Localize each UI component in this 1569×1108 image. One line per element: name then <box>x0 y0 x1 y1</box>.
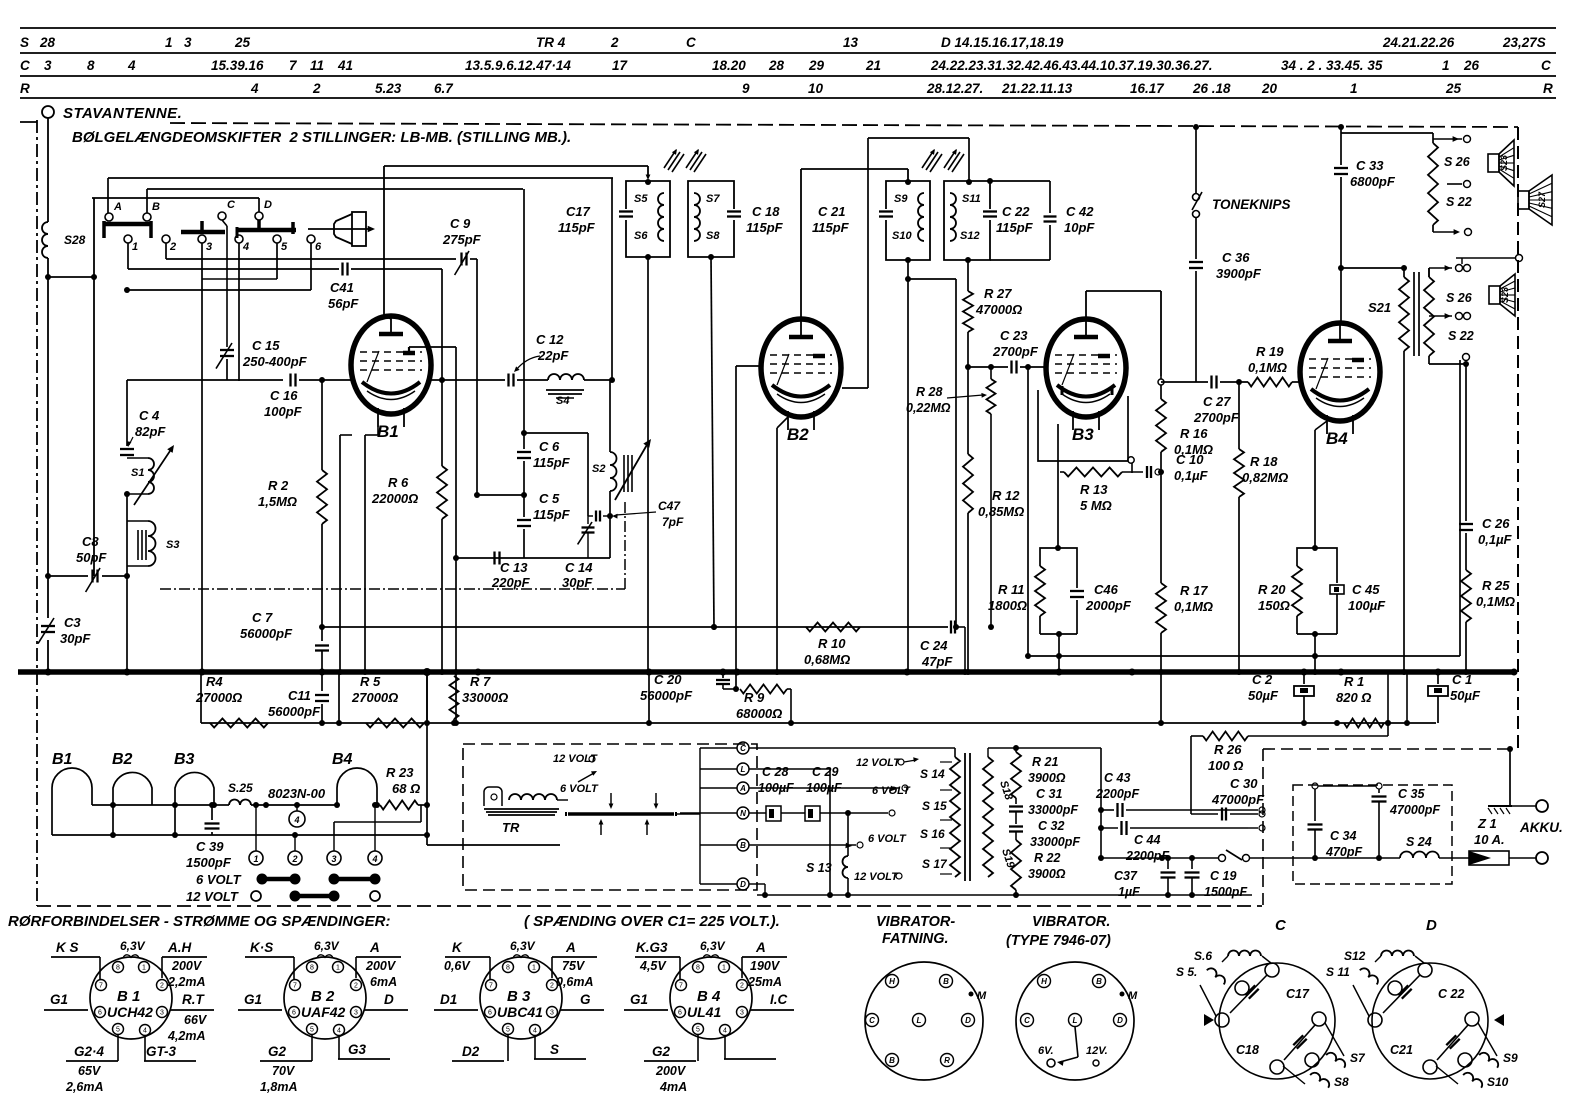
svg-text:R 11: R 11 <box>998 582 1025 597</box>
svg-text:28: 28 <box>768 58 785 73</box>
svg-text:30pF: 30pF <box>562 575 593 590</box>
svg-text:R 28: R 28 <box>916 385 942 399</box>
svg-text:R: R <box>944 1056 950 1065</box>
wire R23 return <box>334 805 421 835</box>
svg-text:R 9: R 9 <box>744 690 765 705</box>
svg-text:7: 7 <box>489 983 493 990</box>
svg-text:7: 7 <box>679 983 683 990</box>
capacitor C42 <box>1044 181 1096 260</box>
label B3 filament <box>174 751 195 768</box>
svg-text:6V.: 6V. <box>1038 1045 1054 1057</box>
filter wire y858 <box>1293 857 1400 859</box>
wire x339 <box>336 672 342 726</box>
svg-text:I.C: I.C <box>770 992 788 1007</box>
wire y269 osc line <box>128 268 339 270</box>
svg-text:8023N-00: 8023N-00 <box>268 786 326 801</box>
svg-text:56000pF: 56000pF <box>640 688 693 703</box>
svg-text:C 23: C 23 <box>1000 328 1028 343</box>
filament loop B4 <box>334 768 380 808</box>
svg-text:R 21: R 21 <box>1032 755 1058 769</box>
resistor R19 <box>1248 344 1300 387</box>
svg-text:28: 28 <box>39 35 56 50</box>
svg-text:150Ω: 150Ω <box>1258 598 1290 613</box>
wire B1 osc electrode to x456 <box>409 347 456 353</box>
label 12 VOLT upper tap <box>856 757 919 769</box>
svg-text:K·S: K·S <box>250 940 273 955</box>
capacitor C34 <box>1308 783 1363 861</box>
resistor R2 <box>258 380 327 524</box>
index row C <box>20 58 1551 73</box>
horn symbol <box>308 212 375 246</box>
resistor R4 <box>195 674 268 728</box>
svg-text:R 1: R 1 <box>1344 674 1364 689</box>
label 6VOLT lower <box>868 833 907 845</box>
svg-text:S 11: S 11 <box>1326 965 1350 979</box>
svg-text:1,5MΩ: 1,5MΩ <box>258 494 297 509</box>
pentode B2 <box>761 319 841 444</box>
svg-text:R 7: R 7 <box>470 674 491 689</box>
coil S3 <box>127 494 179 576</box>
svg-text:70V: 70V <box>272 1064 296 1078</box>
svg-text:S: S <box>550 1042 559 1057</box>
vibrator terminal D <box>700 878 749 890</box>
vibrator terminal B <box>700 839 749 851</box>
terminal 4 <box>368 802 382 865</box>
svg-text:R: R <box>1543 81 1553 96</box>
wire x127 to bus <box>126 576 128 672</box>
svg-text:1500pF: 1500pF <box>1204 885 1247 899</box>
svg-text:C 36: C 36 <box>1222 250 1250 265</box>
svg-text:4: 4 <box>337 1028 341 1035</box>
svg-text:B: B <box>1096 977 1102 986</box>
svg-text:18.20: 18.20 <box>712 58 746 73</box>
svg-text:C18: C18 <box>1236 1043 1259 1057</box>
svg-text:115pF: 115pF <box>533 455 571 470</box>
svg-text:26 .18: 26 .18 <box>1192 81 1231 96</box>
capacitor C26 <box>1459 364 1513 570</box>
main HT bus <box>18 668 1518 676</box>
svg-text:C 9: C 9 <box>450 216 471 231</box>
svg-text:GT-3: GT-3 <box>146 1044 176 1059</box>
label R11 <box>988 582 1027 613</box>
svg-text:S4: S4 <box>556 395 569 407</box>
svg-text:115pF: 115pF <box>746 220 784 235</box>
svg-text:C47: C47 <box>658 499 681 513</box>
svg-text:47000Ω: 47000Ω <box>975 302 1022 317</box>
svg-text:33000pF: 33000pF <box>1028 803 1078 817</box>
label S17 <box>922 857 948 871</box>
socket B4 labels <box>624 939 794 1094</box>
svg-text:115pF: 115pF <box>996 220 1034 235</box>
speaker network lower taps <box>1429 258 1471 367</box>
svg-text:K: K <box>452 940 463 955</box>
svg-text:6: 6 <box>292 1010 296 1017</box>
svg-text:C 29: C 29 <box>812 765 838 779</box>
svg-text:A: A <box>755 940 766 955</box>
vibrator-fatning socket <box>865 962 987 1080</box>
svg-text:S12: S12 <box>960 230 980 242</box>
toneknips switch <box>1192 124 1291 218</box>
svg-text:B3: B3 <box>174 751 195 768</box>
coil S4 <box>517 374 612 407</box>
svg-text:B4: B4 <box>1326 429 1348 448</box>
wire y198 band line D <box>92 197 259 199</box>
svg-text:R 20: R 20 <box>1258 582 1286 597</box>
svg-text:S 26: S 26 <box>1444 155 1471 169</box>
svg-text:G1: G1 <box>50 992 68 1007</box>
label 12 VOLT vibr <box>553 753 598 765</box>
label S26 lower <box>1446 291 1473 305</box>
svg-text:AKKU.: AKKU. <box>1519 820 1563 835</box>
filament mid wire <box>92 802 217 808</box>
capacitor C33 <box>1334 124 1396 323</box>
svg-text:UL41: UL41 <box>687 1004 721 1020</box>
svg-text:D: D <box>1117 1016 1123 1025</box>
svg-text:5: 5 <box>506 1027 510 1034</box>
svg-text:22000Ω: 22000Ω <box>371 491 418 506</box>
vibrator ground wire y895 <box>757 894 1252 896</box>
svg-text:C 14: C 14 <box>565 560 593 575</box>
svg-text:7: 7 <box>293 983 297 990</box>
svg-text:22pF: 22pF <box>537 348 569 363</box>
svg-text:( SPÆNDING OVER C1= 225 VOLT.): ( SPÆNDING OVER C1= 225 VOLT.). <box>524 913 780 930</box>
wire x427 filament <box>424 672 560 845</box>
svg-text:56pF: 56pF <box>328 296 359 311</box>
svg-text:2700pF: 2700pF <box>992 344 1039 359</box>
filament bottom wire <box>52 832 427 838</box>
vibrator reed bar <box>557 800 676 816</box>
svg-text:115pF: 115pF <box>533 507 571 522</box>
resistor R23 <box>380 765 430 810</box>
svg-text:12 VOLT: 12 VOLT <box>186 889 239 904</box>
terminal 1 <box>249 802 263 865</box>
svg-text:R 16: R 16 <box>1180 426 1208 441</box>
svg-text:100 Ω: 100 Ω <box>1208 758 1243 773</box>
socket B1 <box>90 955 172 1039</box>
filament drop wires <box>113 805 175 835</box>
capacitor C27 and R19 grid line <box>1158 376 1248 426</box>
svg-text:S10: S10 <box>892 230 912 242</box>
svg-text:47000pF: 47000pF <box>1389 803 1440 817</box>
svg-text:56000pF: 56000pF <box>268 704 321 719</box>
svg-text:B 2: B 2 <box>311 988 335 1005</box>
svg-text:R 18: R 18 <box>1250 454 1278 469</box>
svg-text:R 10: R 10 <box>818 636 846 651</box>
wire x456 below <box>453 672 459 726</box>
svg-text:RØRFORBINDELSER - STRØMME OG S: RØRFORBINDELSER - STRØMME OG SPÆNDINGER: <box>8 913 391 930</box>
label C17 <box>558 204 596 235</box>
svg-text:2: 2 <box>740 983 744 990</box>
wire y259 to C9 <box>166 258 456 260</box>
svg-text:1: 1 <box>1350 81 1358 96</box>
svg-text:S6: S6 <box>634 230 648 242</box>
capacitor C31 <box>1009 787 1078 817</box>
label 8023N-00 <box>268 786 326 801</box>
svg-text:1,8mA: 1,8mA <box>260 1080 298 1094</box>
svg-text:C 39: C 39 <box>196 839 224 854</box>
wire x456 <box>453 347 459 675</box>
svg-text:4: 4 <box>250 81 259 96</box>
svg-text:200V: 200V <box>171 959 203 973</box>
svg-text:6800pF: 6800pF <box>1350 174 1396 189</box>
svg-text:A: A <box>739 784 746 793</box>
svg-text:25mA: 25mA <box>747 975 782 989</box>
label S15 <box>922 799 947 813</box>
svg-text:S 14: S 14 <box>920 767 945 781</box>
svg-text:30pF: 30pF <box>60 631 91 646</box>
wire B2 diode detector line <box>842 138 972 388</box>
svg-text:C 6: C 6 <box>539 439 560 454</box>
IF1 tuning arrows <box>664 149 706 172</box>
vibrator socket dashed box <box>463 744 757 890</box>
svg-text:20: 20 <box>1261 81 1278 96</box>
svg-text:0,6mA: 0,6mA <box>556 975 594 989</box>
svg-text:3900Ω: 3900Ω <box>1028 771 1066 785</box>
svg-text:8: 8 <box>87 58 95 73</box>
svg-text:65V: 65V <box>78 1064 102 1078</box>
label S26 upper <box>1444 155 1471 169</box>
svg-text:6.7: 6.7 <box>434 81 454 96</box>
capacitor C47 <box>588 499 684 529</box>
resistor R1 <box>1334 674 1391 728</box>
svg-text:C 2: C 2 <box>1252 672 1273 687</box>
svg-text:C 22: C 22 <box>1438 987 1464 1001</box>
svg-text:S.6: S.6 <box>1194 949 1212 963</box>
svg-text:6,3V: 6,3V <box>314 939 340 953</box>
svg-text:D: D <box>740 880 746 889</box>
svg-text:C 30: C 30 <box>1230 776 1258 791</box>
svg-text:470pF: 470pF <box>1325 845 1362 859</box>
svg-text:13: 13 <box>843 35 859 50</box>
gang dash-dot line <box>160 500 625 589</box>
resistor R27 <box>963 260 1022 454</box>
capacitor C41 <box>328 263 442 312</box>
switch S on 6V line <box>1162 850 1293 862</box>
svg-text:B: B <box>740 841 746 850</box>
label 6VOLT mid <box>872 785 911 797</box>
svg-text:UBC41: UBC41 <box>497 1004 543 1020</box>
capacitor C1 <box>1428 672 1481 723</box>
svg-text:28.12.27.: 28.12.27. <box>926 81 983 96</box>
wire x1388 x1407 <box>1385 672 1410 736</box>
svg-text:250-400pF: 250-400pF <box>242 354 308 369</box>
svg-text:S27: S27 <box>1537 191 1547 208</box>
svg-text:2: 2 <box>312 81 321 96</box>
svg-text:FATNING.: FATNING. <box>882 931 949 947</box>
wire B3 anode <box>1086 291 1161 376</box>
svg-text:25: 25 <box>1445 81 1462 96</box>
svg-text:K S: K S <box>56 940 79 955</box>
wire right loop x1101 <box>1098 748 1104 861</box>
switch point 1 <box>124 235 138 269</box>
R20 C45 cathode box <box>1292 421 1344 675</box>
wire C22 C42 loop <box>987 178 1050 260</box>
vibrator type socket <box>1016 962 1138 1080</box>
coil S28 <box>42 222 86 258</box>
svg-text:TR: TR <box>502 820 520 835</box>
svg-text:13.5.9.6.12.47·14: 13.5.9.6.12.47·14 <box>465 58 571 73</box>
wire y495 <box>474 492 527 498</box>
svg-text:VIBRATOR-: VIBRATOR- <box>876 914 955 930</box>
svg-text:4,2mA: 4,2mA <box>167 1029 206 1043</box>
svg-text:S21: S21 <box>1368 300 1391 315</box>
svg-text:C 24: C 24 <box>920 638 948 653</box>
label S16 <box>920 827 945 841</box>
svg-text:B: B <box>152 201 160 213</box>
label D section <box>1426 917 1437 934</box>
svg-text:B2: B2 <box>112 751 133 768</box>
svg-text:M: M <box>977 990 987 1002</box>
svg-text:S2: S2 <box>592 463 605 475</box>
resistor R25 <box>1461 570 1515 675</box>
svg-text:D: D <box>965 1016 971 1025</box>
label 12 VOLT lower tap <box>854 871 902 883</box>
svg-text:H: H <box>1041 977 1047 986</box>
svg-text:C: C <box>1541 58 1551 73</box>
svg-text:C 42: C 42 <box>1066 204 1094 219</box>
svg-text:B2: B2 <box>787 425 809 444</box>
resistor R10 <box>804 623 860 668</box>
svg-text:3: 3 <box>354 1010 358 1017</box>
svg-text:2,6mA: 2,6mA <box>65 1080 104 1094</box>
svg-text:24.21.22.26: 24.21.22.26 <box>1382 35 1455 50</box>
svg-text:6: 6 <box>315 241 322 253</box>
label 6 VOLT vibr <box>560 771 599 795</box>
coil S24 <box>1400 835 1469 858</box>
svg-text:C 45: C 45 <box>1352 582 1380 597</box>
svg-text:4: 4 <box>242 241 249 253</box>
svg-text:4mA: 4mA <box>659 1080 687 1094</box>
svg-text:4: 4 <box>143 1028 147 1035</box>
index row S <box>20 35 1546 50</box>
svg-text:4,5V: 4,5V <box>639 959 667 973</box>
svg-text:6: 6 <box>98 1010 102 1017</box>
svg-text:R 2: R 2 <box>268 478 289 493</box>
index table rule lines <box>20 28 1556 98</box>
svg-text:C: C <box>1024 1016 1030 1025</box>
svg-text:200V: 200V <box>655 1064 687 1078</box>
wire C to transformer <box>749 748 955 757</box>
label AKKU <box>1519 820 1563 835</box>
svg-text:6,3V: 6,3V <box>120 939 146 953</box>
svg-text:50µF: 50µF <box>1248 688 1279 703</box>
svg-text:47000pF: 47000pF <box>1211 792 1265 807</box>
vibrator terminal L <box>700 763 749 775</box>
svg-text:L: L <box>917 1016 922 1025</box>
svg-text:(TYPE 7946-07): (TYPE 7946-07) <box>1006 933 1111 949</box>
coil S2 <box>592 380 651 558</box>
svg-text:H: H <box>889 977 895 986</box>
svg-text:C 27: C 27 <box>1203 394 1231 409</box>
wire x1162 below <box>1158 672 1164 726</box>
svg-text:275pF: 275pF <box>442 232 482 247</box>
svg-text:R 12: R 12 <box>992 488 1020 503</box>
12 volt links <box>251 891 380 902</box>
resistor R9 <box>723 685 794 727</box>
node wire y277 <box>48 276 94 278</box>
svg-text:75V: 75V <box>562 959 586 973</box>
capacitor C3 <box>38 615 91 672</box>
label C28 <box>758 765 794 795</box>
svg-text:5: 5 <box>116 1027 120 1034</box>
wire top y746 <box>955 745 1101 751</box>
wire y380 right of B1 <box>431 377 505 383</box>
label 12 VOLT <box>186 889 239 904</box>
svg-text:C 20: C 20 <box>654 672 682 687</box>
svg-text:C 7: C 7 <box>252 610 273 625</box>
wire switch column x94 <box>91 198 97 576</box>
capacitor C4 <box>120 380 166 455</box>
svg-text:S10: S10 <box>1487 1075 1509 1089</box>
svg-text:9: 9 <box>742 81 750 96</box>
svg-text:1µF: 1µF <box>1118 885 1140 899</box>
filament loop B1 <box>52 768 92 835</box>
svg-text:3: 3 <box>206 241 212 253</box>
resistor R7 <box>450 674 509 726</box>
svg-text:STAVANTENNE.: STAVANTENNE. <box>63 105 182 122</box>
socket B1 labels <box>44 939 214 1094</box>
svg-text:5: 5 <box>310 1027 314 1034</box>
svg-text:S9: S9 <box>894 193 908 205</box>
capacitor C11 <box>268 672 329 726</box>
label S22 lower <box>1448 329 1474 343</box>
capacitor C14 <box>562 516 595 590</box>
switch contact A <box>105 178 122 221</box>
svg-text:D2: D2 <box>462 1044 480 1059</box>
svg-text:23,27S: 23,27S <box>1502 35 1546 50</box>
svg-text:B1: B1 <box>377 422 399 441</box>
svg-text:S 26: S 26 <box>1446 291 1473 305</box>
label BOLGELAENGDEOMSKIFTER <box>72 129 571 146</box>
svg-text:S7: S7 <box>1350 1051 1366 1065</box>
coil S1 <box>124 445 174 505</box>
svg-text:2: 2 <box>610 35 619 50</box>
capacitor C24 <box>920 621 968 676</box>
svg-text:TONEKNIPS: TONEKNIPS <box>1212 197 1291 212</box>
oscillator loop top wire <box>521 430 588 516</box>
svg-text:34 . 2 . 33.45. 35: 34 . 2 . 33.45. 35 <box>1281 58 1383 73</box>
svg-text:S9: S9 <box>1503 1051 1518 1065</box>
svg-text:2: 2 <box>160 983 164 990</box>
wire x227 down <box>226 359 228 380</box>
label C46 <box>1085 582 1132 613</box>
svg-text:C 43: C 43 <box>1104 771 1130 785</box>
switch contact D <box>255 198 272 230</box>
switch bar 3 <box>181 221 225 232</box>
6 volt links <box>257 874 381 885</box>
resistor R17 <box>1156 583 1213 675</box>
switch point 6 <box>307 235 322 290</box>
svg-text:0,82MΩ: 0,82MΩ <box>1242 470 1288 485</box>
svg-text:B3: B3 <box>1072 425 1094 444</box>
svg-text:C 13: C 13 <box>500 560 528 575</box>
wire x649 below <box>646 672 652 726</box>
svg-text:B 4: B 4 <box>697 988 721 1005</box>
resistor R6 <box>371 269 447 675</box>
wire A to S15 <box>749 785 908 791</box>
svg-text:B4: B4 <box>332 751 353 768</box>
svg-text:1: 1 <box>532 965 536 972</box>
svg-text:S7: S7 <box>706 193 720 205</box>
svg-text:0,1MΩ: 0,1MΩ <box>1248 360 1287 375</box>
svg-text:100pF: 100pF <box>264 404 303 419</box>
capacitor C37 <box>1114 855 1176 899</box>
svg-text:C: C <box>686 35 696 50</box>
index row R <box>20 81 1553 96</box>
svg-text:15.39.16: 15.39.16 <box>211 58 264 73</box>
svg-text:5: 5 <box>281 241 288 253</box>
svg-text:1: 1 <box>722 965 726 972</box>
